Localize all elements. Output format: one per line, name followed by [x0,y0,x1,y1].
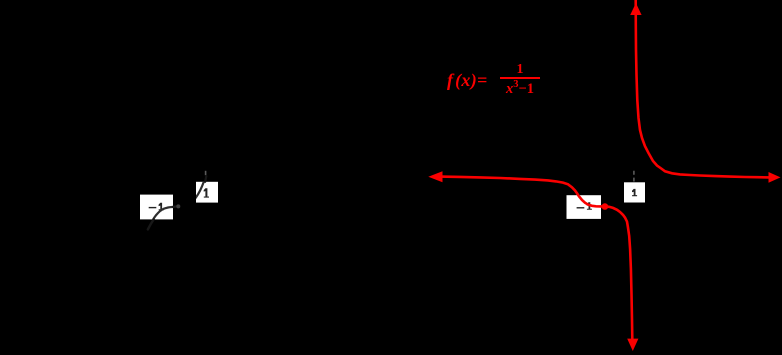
left graph label "1" [204,188,209,197]
right graph label "1" [632,189,637,196]
right graph: white label box "-1" [567,195,602,219]
right graph: marked point (0,-1) [602,203,609,210]
right graph: left arrowhead (end of lower branch) [428,171,442,182]
left graph: faint curve stub below box "-1" [148,219,154,229]
left graph: white label box "-1" [140,195,173,220]
left graph: dashed tick at x=1 [205,171,207,175]
right graph: red curve lower branch of 1/(x^3-1) [440,177,632,340]
left graph: white label box "1" [196,182,218,203]
left graph: faint curve stub above box "1" [205,176,206,182]
left graph: faint curve stub right of box "-1" [173,205,176,208]
right graph: red curve upper branch of 1/(x^3-1) [636,0,769,177]
right graph: bottom arrowhead (curve end) [627,339,638,351]
right graph: white label box "1" [624,182,645,202]
right graph: top arrowhead (curve end) [630,3,641,15]
right graph label "-1" [577,207,585,208]
left graph label "-1" [149,207,157,208]
left graph: cubic curve visible through white boxes [144,171,208,242]
right graph: right arrowhead (end of upper branch) [769,172,781,183]
left graph: faint point (0,-1) [176,204,180,208]
right graph: dashed tick at x=1 [633,171,635,182]
formula f(x) = 1/(x^3-1) [447,70,488,91]
